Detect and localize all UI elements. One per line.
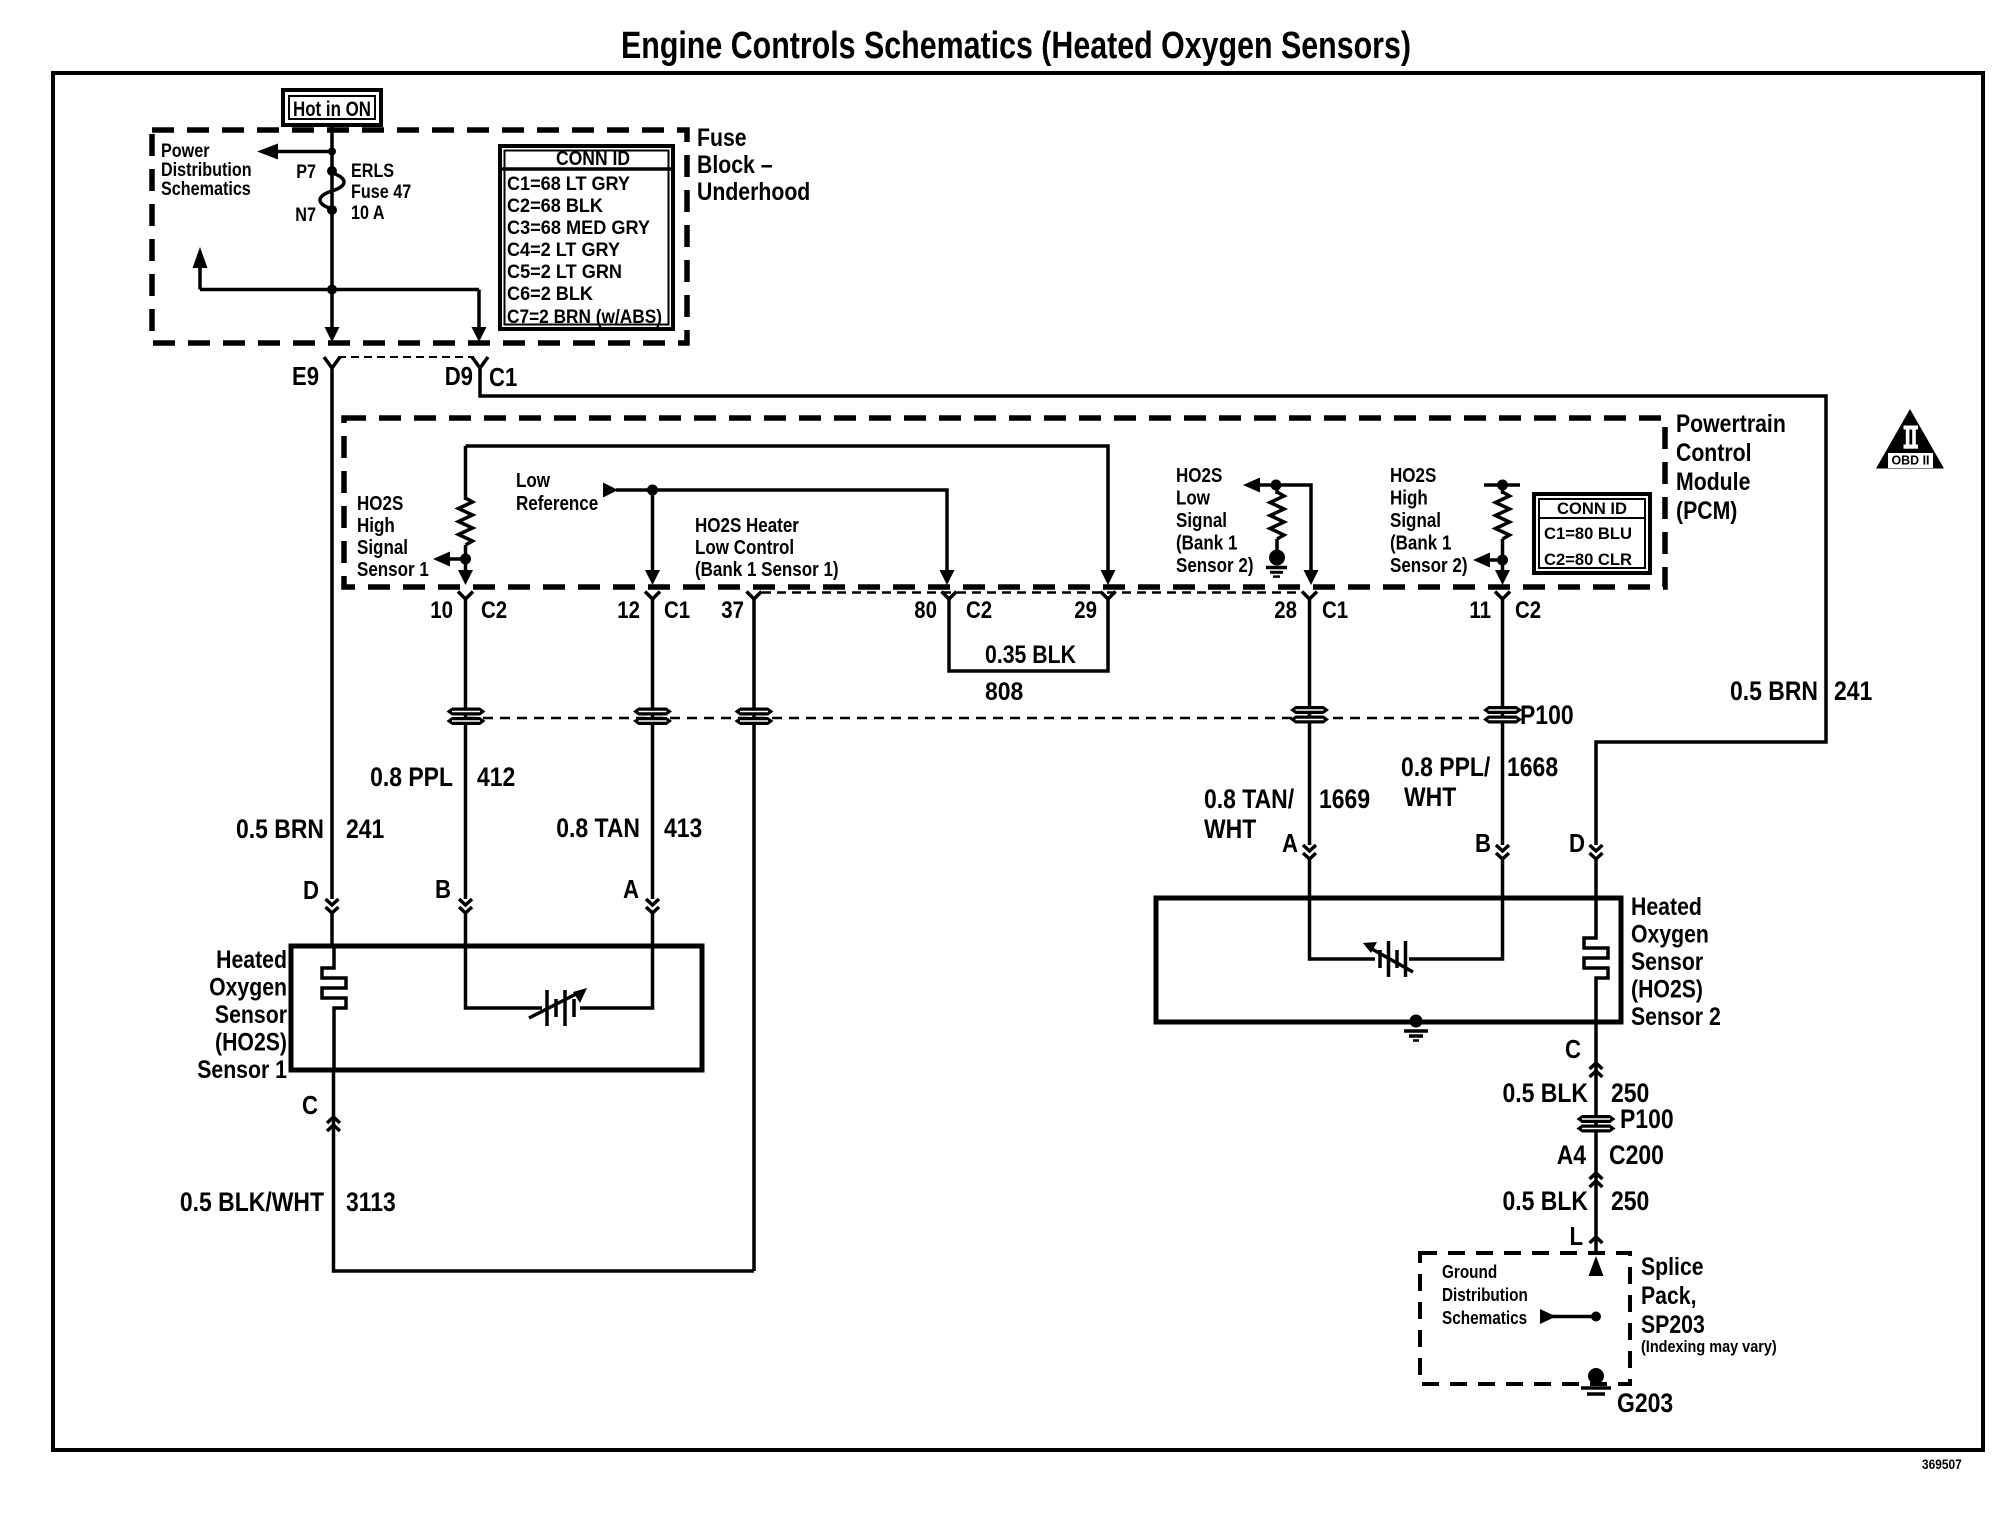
svg-text:SP203: SP203 (1641, 1311, 1705, 1339)
label Power Distribution Schematics (161, 141, 252, 200)
label Heated Oxygen Sensor (HO2S) Sensor 2 (1631, 893, 1721, 1031)
variable battery symbol (sensor1) (529, 988, 587, 1026)
svg-text:(Indexing may vary): (Indexing may vary) (1641, 1337, 1777, 1356)
wire E9 down to sensor1 D (330, 368, 334, 899)
svg-text:Signal: Signal (1390, 510, 1441, 532)
ground dot on sensor2 case (1410, 1015, 1423, 1028)
svg-text:250: 250 (1611, 1186, 1649, 1216)
svg-text:Low Control: Low Control (695, 537, 794, 559)
sensor1 C wire down and right to pin37 wire (334, 1070, 755, 1271)
svg-text:CONN ID: CONN ID (1557, 499, 1627, 518)
svg-text:241: 241 (1834, 676, 1872, 706)
pin 29 (1101, 592, 1116, 600)
svg-text:Schematics: Schematics (161, 179, 251, 200)
fuse block dashed box (152, 130, 687, 343)
svg-text:High: High (357, 515, 395, 537)
svg-text:C2=80 CLR: C2=80 CLR (1544, 550, 1632, 569)
splice pack dashed box (1420, 1253, 1630, 1384)
dashed connector line E9-D9 (338, 356, 474, 358)
svg-text:0.8 PPL/: 0.8 PPL/ (1401, 752, 1491, 782)
pin 12 arrow down (645, 570, 660, 585)
svg-text:P7: P7 (296, 162, 316, 183)
inline connector on wire 1669 (1290, 706, 1329, 724)
svg-text:C: C (302, 1090, 318, 1120)
svg-text:(HO2S): (HO2S) (215, 1029, 287, 1057)
sensor2 C wire down (1594, 1022, 1598, 1253)
svg-text:Low: Low (1176, 488, 1210, 510)
wire D9/C1 to PCM right side (0.5 BRN 241) (480, 368, 1826, 845)
svg-text:Reference: Reference (516, 493, 598, 515)
svg-text:C1: C1 (664, 597, 690, 624)
svg-text:Module: Module (1676, 468, 1750, 496)
resistor (HO2S high signal sensor 1) (464, 446, 468, 500)
svg-text:Heated: Heated (216, 946, 287, 974)
wire pin 10 down to sensor1 B (464, 599, 468, 899)
svg-text:Sensor: Sensor (215, 1001, 287, 1029)
svg-text:D: D (303, 875, 319, 905)
svg-text:Heated: Heated (1631, 893, 1702, 921)
svg-text:(HO2S): (HO2S) (1631, 976, 1703, 1004)
pin 37 (747, 592, 762, 600)
svg-text:1668: 1668 (1507, 752, 1558, 782)
wire pin 11 down to sensor2 B (1501, 599, 1505, 845)
svg-text:C: C (1565, 1034, 1581, 1064)
svg-text:CONN ID: CONN ID (556, 148, 630, 170)
svg-text:10 A: 10 A (351, 203, 385, 224)
heated oxygen sensor 2 box (1156, 898, 1621, 1022)
sensor cell (sensor2): wires (1310, 898, 1376, 959)
arrow left at resistor bottom (449, 557, 465, 561)
connector D9 fork (472, 357, 488, 368)
svg-text:B: B (435, 874, 451, 904)
svg-text:0.5 BLK/WHT: 0.5 BLK/WHT (180, 1187, 325, 1217)
svg-text:Underhood: Underhood (697, 178, 810, 206)
svg-text:12: 12 (617, 597, 640, 624)
svg-text:C2: C2 (481, 597, 507, 624)
ground G203 (1588, 1368, 1604, 1384)
svg-text:N7: N7 (295, 205, 316, 226)
svg-text:Ground: Ground (1442, 1262, 1497, 1282)
svg-text:Distribution: Distribution (161, 160, 252, 181)
heater element (sensor2) (1584, 898, 1608, 1022)
inline connector on wire 413 (633, 708, 672, 726)
svg-text:29: 29 (1074, 597, 1097, 624)
sensor cell (sensor1): wires (466, 946, 543, 1008)
svg-text:80: 80 (914, 597, 937, 624)
label Powertrain Control Module (PCM) (1676, 410, 1786, 525)
svg-text:A4: A4 (1557, 1140, 1586, 1170)
svg-text:A: A (1282, 828, 1298, 858)
svg-text:A: A (623, 874, 639, 904)
heated oxygen sensor 1 box (291, 946, 702, 1070)
pin 80 arrow down (940, 570, 955, 585)
resistor (HO2S low signal bank1 sensor2) (1243, 478, 1311, 577)
svg-text:WHT: WHT (1404, 782, 1457, 812)
svg-text:C1=80 BLU: C1=80 BLU (1544, 524, 1632, 543)
svg-text:D9: D9 (445, 361, 473, 391)
pin 12 C1 (645, 592, 660, 600)
pin 11 arrow down (1495, 570, 1510, 585)
pin 10 arrow down (458, 570, 473, 585)
svg-text:HO2S: HO2S (1390, 465, 1436, 487)
svg-text:C2=68 BLK: C2=68 BLK (507, 196, 603, 217)
svg-text:0.8 TAN: 0.8 TAN (556, 813, 640, 843)
wire pin 12 down to sensor1 A (651, 599, 655, 899)
wire: fuse output junction (327, 285, 337, 295)
svg-text:Sensor 1: Sensor 1 (357, 559, 429, 581)
CONN ID table (PCM) (1534, 494, 1650, 573)
svg-text:0.5 BLK: 0.5 BLK (1503, 1186, 1589, 1216)
svg-text:Pack,: Pack, (1641, 1282, 1697, 1310)
svg-text:28: 28 (1274, 597, 1297, 624)
svg-text:P100: P100 (1620, 1104, 1674, 1134)
variable battery symbol (sensor2) (1363, 941, 1413, 977)
svg-text:High: High (1390, 488, 1428, 510)
pin 29 arrow down (1101, 570, 1116, 585)
svg-text:Signal: Signal (1176, 510, 1227, 532)
svg-text:Low: Low (516, 470, 550, 492)
svg-text:11: 11 (1469, 597, 1491, 624)
svg-text:Block –: Block – (697, 151, 773, 179)
svg-text:Control: Control (1676, 439, 1752, 467)
label HO2S High Signal Sensor 1 (357, 493, 429, 581)
svg-text:413: 413 (664, 813, 702, 843)
svg-text:(PCM): (PCM) (1676, 497, 1737, 525)
svg-text:0.8 TAN/: 0.8 TAN/ (1204, 784, 1295, 814)
pin 11 C2 (1495, 592, 1510, 600)
arrow up (power distribution) (198, 266, 202, 290)
connector E9 fork (324, 357, 340, 368)
svg-text:Sensor 2): Sensor 2) (1176, 555, 1254, 577)
low reference arrow right (603, 483, 618, 498)
svg-text:Signal: Signal (357, 537, 408, 559)
wire resistor top to pin 29 (466, 446, 1109, 571)
svg-text:Fuse 47: Fuse 47 (351, 182, 411, 203)
label Splice Pack SP203 (1641, 1253, 1777, 1356)
svg-text:C2: C2 (966, 597, 992, 624)
svg-text:ERLS: ERLS (351, 161, 394, 182)
label Fuse Block - Underhood (697, 124, 810, 206)
svg-text:0.5 BLK: 0.5 BLK (1503, 1078, 1589, 1108)
svg-text:3113: 3113 (346, 1187, 396, 1217)
svg-text:HO2S: HO2S (357, 493, 403, 515)
arrow down at D9 (477, 290, 481, 331)
wire low ref to pin 12 (651, 490, 655, 571)
svg-text:Oxygen: Oxygen (209, 974, 287, 1002)
svg-text:37: 37 (721, 597, 744, 624)
svg-text:C1: C1 (489, 362, 517, 392)
svg-text:(Bank 1: (Bank 1 (1390, 533, 1451, 555)
svg-text:0.8 PPL: 0.8 PPL (370, 762, 453, 792)
OBD II triangle icon (1876, 409, 1944, 469)
svg-text:C2: C2 (1515, 597, 1541, 624)
svg-text:Engine Controls Schematics (He: Engine Controls Schematics (Heated Oxyge… (621, 25, 1411, 67)
svg-text:C1: C1 (1322, 597, 1348, 624)
svg-text:Splice: Splice (1641, 1253, 1704, 1281)
arrow down at E9 (330, 290, 334, 331)
svg-text:C1=68 LT GRY: C1=68 LT GRY (507, 174, 630, 195)
svg-text:C200: C200 (1609, 1140, 1664, 1170)
svg-text:0.35 BLK: 0.35 BLK (985, 641, 1076, 669)
terminal C (sensor1) chevrons up (327, 1117, 340, 1123)
svg-text:Sensor 1: Sensor 1 (197, 1056, 287, 1084)
inline connector on wire 412 (447, 708, 486, 726)
inline connector P100 (lower) (1577, 1115, 1616, 1133)
svg-text:HO2S Heater: HO2S Heater (695, 515, 799, 537)
svg-text:D: D (1569, 828, 1585, 858)
svg-text:808: 808 (985, 678, 1023, 706)
svg-text:0.5 BRN: 0.5 BRN (236, 814, 324, 844)
arrow to power distribution (left) (277, 150, 332, 154)
svg-text:369507: 369507 (1922, 1456, 1962, 1472)
pin 28 arrow down (1304, 570, 1319, 585)
fuse F47 ERLS (295, 161, 411, 226)
svg-text:Sensor: Sensor (1631, 948, 1703, 976)
label Heated Oxygen Sensor (HO2S) Sensor 1 (197, 946, 287, 1084)
svg-text:Hot in ON: Hot in ON (293, 98, 371, 121)
svg-text:Fuse: Fuse (697, 124, 747, 152)
svg-text:G203: G203 (1617, 1388, 1673, 1418)
pin 28 C1 (1302, 592, 1317, 600)
svg-text:Oxygen: Oxygen (1631, 921, 1709, 949)
inline connector P100 on wire 1668 (1483, 706, 1522, 724)
svg-text:B: B (1475, 828, 1491, 858)
svg-text:E9: E9 (292, 361, 319, 391)
svg-text:Powertrain: Powertrain (1676, 410, 1786, 438)
svg-text:L: L (1570, 1221, 1584, 1251)
svg-text:Power: Power (161, 141, 210, 162)
CONN ID table (fuse block) (500, 146, 673, 329)
svg-text:WHT: WHT (1204, 814, 1257, 844)
terminal C (sensor2) chevrons up (1590, 1063, 1603, 1069)
svg-text:HO2S: HO2S (1176, 465, 1222, 487)
ground (inside PCM) (1266, 566, 1287, 570)
svg-text:C6=2 BLK: C6=2 BLK (507, 284, 593, 305)
wire pin 37 down to C junction (752, 599, 756, 1271)
svg-text:241: 241 (346, 814, 384, 844)
svg-text:Sensor 2): Sensor 2) (1390, 555, 1468, 577)
label HO2S High Signal (Bank 1 Sensor 2) (1390, 465, 1468, 577)
svg-text:1669: 1669 (1319, 784, 1370, 814)
label HO2S Heater Low Control (Bank 1 Sensor 1) (695, 515, 839, 581)
label Ground Distribution Schematics (1442, 1262, 1528, 1328)
arrow to ground distribution (1552, 1315, 1596, 1319)
wire pin 28 down to sensor2 A (1308, 599, 1312, 845)
svg-text:10: 10 (430, 597, 453, 624)
svg-text:C7=2 BRN (w/ABS): C7=2 BRN (w/ABS) (507, 307, 662, 328)
dashed connector line pins 37-28 (762, 591, 1301, 594)
PCM dashed box (344, 418, 1665, 587)
svg-text:OBD II: OBD II (1892, 454, 1930, 468)
svg-text:Sensor 2: Sensor 2 (1631, 1003, 1721, 1031)
svg-text:C3=68 MED GRY: C3=68 MED GRY (507, 218, 650, 239)
svg-text:C4=2 LT GRY: C4=2 LT GRY (507, 240, 620, 261)
svg-text:C5=2 LT GRN: C5=2 LT GRN (507, 262, 622, 283)
svg-text:(Bank 1 Sensor 1): (Bank 1 Sensor 1) (695, 559, 839, 581)
heater element (sensor1) (322, 946, 346, 1070)
svg-text:(Bank 1: (Bank 1 (1176, 533, 1237, 555)
svg-text:Distribution: Distribution (1442, 1285, 1528, 1305)
svg-text:P100: P100 (1520, 700, 1574, 730)
label HO2S Low Signal (Bank 1 Sensor 2) (1176, 465, 1254, 577)
wire: Hot in ON down to fuse (330, 125, 334, 290)
wire pin 80 to pin 29 loop 0.35 BLK 808 (949, 599, 1108, 671)
inline connector dashed line (466, 717, 1502, 720)
resistor (HO2S high signal bank1 sensor2) (1473, 480, 1520, 576)
inline connector on wire 3113 (735, 708, 774, 726)
arrow up into splice pack (1589, 1256, 1604, 1276)
pin 10 C2 (458, 592, 473, 600)
svg-text:0.5 BRN: 0.5 BRN (1730, 676, 1818, 706)
Hot in ON box (283, 90, 381, 125)
pin 80 C2 (942, 592, 957, 600)
svg-text:Schematics: Schematics (1442, 1308, 1527, 1328)
svg-text:412: 412 (477, 762, 515, 792)
